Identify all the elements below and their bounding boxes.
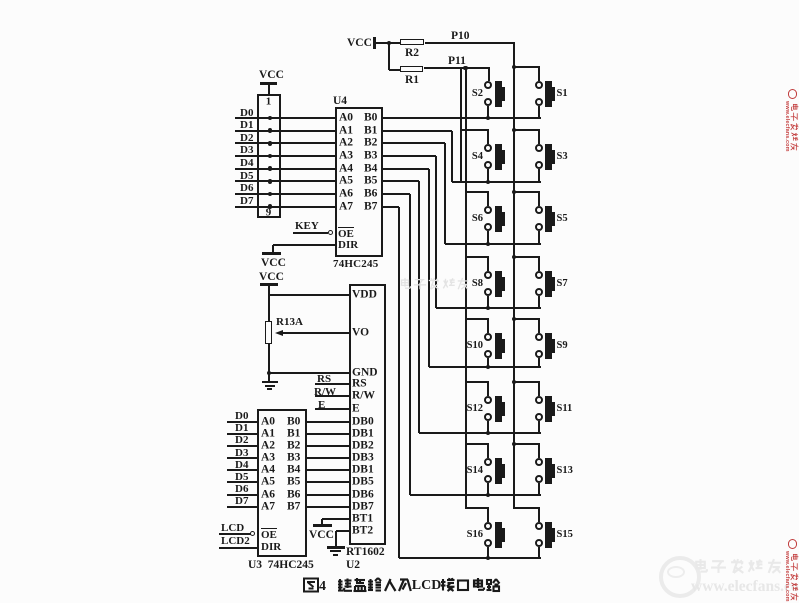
switch S6 (484, 206, 492, 214)
pin A1 U3 label (261, 428, 275, 440)
op U3 74HC245 buffer box (257, 409, 307, 557)
label D0 (top bus) (240, 108, 253, 119)
node D2 on connector (268, 141, 273, 146)
pin B0 label (364, 112, 377, 124)
pin RS U2 label (352, 378, 367, 390)
switch S7 (535, 271, 543, 279)
wire row 4 left-cell top (466, 256, 490, 258)
wire D4 into U3 (227, 469, 257, 471)
node VCC branch (387, 41, 391, 45)
wire S15 bottom lead (538, 547, 540, 558)
pin A5 U3 label (261, 477, 275, 489)
switch S8 (484, 271, 492, 279)
pin DB1 U2 label (352, 465, 374, 477)
pin BT2 U2 label (352, 525, 373, 537)
pin DB6 U2 label (352, 489, 374, 501)
wire row 4 right-cell top (514, 256, 540, 258)
wire P10 column rail (513, 43, 515, 509)
label D3 (top bus) (240, 145, 253, 156)
pin DIR U3 label (261, 542, 281, 553)
wire B4 to key row 5 (383, 168, 429, 170)
pin B6 U3 label (287, 489, 300, 501)
resistor R1 (400, 66, 423, 73)
node S12 on row line (486, 431, 490, 435)
wire D0 into U3 (227, 421, 257, 423)
wire B7 to key row 8 (383, 206, 399, 208)
label D1 (top bus) (240, 120, 253, 131)
node S16 on row line (486, 556, 490, 560)
wire D3 to A3 (235, 155, 335, 157)
pin B5 label (364, 175, 377, 187)
node P10 rail row 5 (512, 317, 517, 322)
wire B7 U3 to DB7 (307, 506, 349, 508)
pin DB1 U2 label (352, 428, 374, 440)
wire row 5 left-cell top (466, 318, 490, 320)
node P10 rail row 3 (512, 190, 517, 195)
pin E U2 label (352, 403, 360, 415)
wire left column rail (465, 68, 467, 509)
wire D5 to A5 (235, 180, 335, 182)
power VCC (LCD supply) (259, 272, 284, 284)
label P11 (448, 56, 466, 68)
pin A3 label (339, 150, 353, 162)
wire B6 to key row 7 (383, 193, 410, 195)
label D3 (bottom bus) (235, 448, 248, 459)
pin DB7 U2 label (352, 501, 374, 513)
pin B7 label (364, 201, 377, 213)
wire S10 bottom lead (487, 358, 489, 367)
label LCD2 + wire to DIR (221, 536, 250, 547)
node D6 on connector (268, 192, 273, 197)
switch S5 (535, 206, 543, 214)
node S10 on row line (486, 365, 490, 369)
pin DB5 U2 label (352, 477, 374, 489)
pin A3 U3 label (261, 452, 275, 464)
wire KEY to OE (293, 232, 328, 234)
label D5 (top bus) (240, 171, 253, 182)
switch S10 (484, 333, 492, 341)
pin A4 U3 label (261, 465, 275, 477)
wire row 6 left-cell top (466, 381, 490, 383)
wire row 1 left-cell top (488, 68, 490, 81)
wire S1 bottom lead (538, 106, 540, 118)
pin A7 label (339, 201, 353, 213)
wire B1 U3 to DB1 (307, 433, 349, 435)
pin GND U2 label (352, 367, 378, 379)
wire S3 bottom lead (538, 169, 540, 182)
node D7 on connector (268, 204, 273, 209)
pin B3 label (364, 150, 377, 162)
pin B5 U3 label (287, 477, 300, 489)
node S6 on row line (486, 242, 490, 246)
wire D2 into U3 (227, 445, 257, 447)
power VCC (DIR pull, inverted bar) (262, 252, 281, 255)
connector J1 keypad header (257, 94, 281, 219)
wire D6 to A6 (235, 193, 335, 195)
wire D5 into U3 (227, 481, 257, 483)
wire DIR to VCC (273, 244, 336, 246)
pin DB3 U2 label (352, 452, 374, 464)
node S8 on row line (486, 306, 490, 310)
node P10 rail row 7 (512, 442, 517, 447)
wire B2 U3 to DB2 (307, 445, 349, 447)
wire R2 to P10 column (425, 42, 515, 44)
wire S4 bottom lead (487, 169, 489, 182)
pin 1 label (266, 96, 272, 107)
label U4 (333, 96, 347, 108)
power VCC (BT1 backlight) (322, 518, 349, 520)
label RT1602 (346, 547, 385, 559)
pin B4 label (364, 163, 377, 175)
wire B5 to key row 6 (383, 180, 419, 182)
label P10 (451, 31, 470, 43)
wire B4 U3 to DB4 (307, 469, 349, 471)
wire GND row (269, 372, 349, 374)
ground (contrast divider) (262, 381, 278, 384)
label D2 (bottom bus) (235, 435, 248, 446)
pin VO U2 label (352, 327, 369, 339)
pin B4 U3 label (287, 465, 300, 477)
pin OE U3 bubble (250, 531, 255, 536)
wire S9 bottom lead (538, 358, 540, 367)
wire row 7 left-cell top (466, 443, 490, 445)
wire D7 to A7 (235, 206, 335, 208)
label D6 (bottom bus) (235, 484, 248, 495)
pin OE U4 (active low) with bubble (338, 227, 354, 240)
wire S12 bottom lead (487, 421, 489, 433)
pin A6 label (339, 188, 353, 200)
node P11 joins rail (463, 66, 468, 71)
power VCC top pull-up supply (347, 38, 372, 50)
power VCC above connector (259, 70, 284, 82)
wire S6 bottom lead (487, 231, 489, 244)
pin A0 label (339, 112, 353, 124)
wire VCC to VDD (269, 294, 349, 296)
label D7 (top bus) (240, 196, 253, 207)
wire row 8 left-cell top (466, 507, 490, 509)
pin A7 U3 label (261, 501, 275, 513)
wire D7 into U3 (227, 506, 257, 508)
resistor R13A (pot) (265, 321, 273, 344)
label U3 74HC245 (248, 560, 314, 572)
node P10 rail row 1 (512, 65, 517, 70)
label D4 (bottom bus) (235, 460, 248, 471)
wire D4 to A4 (235, 168, 335, 170)
label D4 (top bus) (240, 158, 253, 169)
wire B0 to key row 1 (362, 117, 541, 119)
wire B0 U3 to DB0 (307, 421, 349, 423)
label D7 (bottom bus) (235, 496, 248, 507)
pin B1 U3 label (287, 428, 300, 440)
wire D3 into U3 (227, 457, 257, 459)
switch S1 (535, 81, 543, 89)
wire B3 to key row 4 (383, 155, 436, 157)
pin 9 label (266, 207, 272, 218)
wire row 3 left-cell top (466, 191, 490, 193)
wire row 7 right-cell top (514, 443, 540, 445)
pin A6 U3 label (261, 489, 275, 501)
pin B1 label (364, 125, 377, 137)
wire D1 into U3 (227, 433, 257, 435)
node P10 rail row 6 (512, 380, 517, 385)
switch S11 (535, 396, 543, 404)
wire row 5 right-cell top (514, 318, 540, 320)
wire row 3 right-cell top (514, 191, 540, 193)
wire B2 to key row 3 (383, 142, 445, 144)
wire S14 bottom lead (487, 483, 489, 495)
wire R13A branch vertical (268, 295, 270, 374)
wire D1 to A1 (235, 130, 335, 132)
pin BT1 U2 label (352, 513, 373, 525)
node D3 on connector (268, 154, 273, 159)
wire S16 bottom lead (487, 547, 489, 558)
wire S13 bottom lead (538, 483, 540, 495)
pin DIR U4 label (338, 240, 358, 251)
label RS + wire (317, 374, 331, 385)
pin A4 label (339, 163, 353, 175)
wire R1 / P11 row-1 top (424, 67, 490, 69)
wire D6 into U3 (227, 494, 257, 496)
op U4 74HC245 buffer box (335, 107, 383, 257)
label E + wire (318, 400, 325, 411)
wire row 2 left-cell top (461, 129, 489, 131)
pin A2 label (339, 138, 353, 150)
wire B1 to key row 2 (383, 130, 452, 132)
node S2 on row line (486, 116, 490, 120)
pin B0 U3 label (287, 416, 300, 428)
label U2 (346, 560, 360, 572)
op U2 RT1602 LCD box (349, 284, 387, 546)
node D1 on connector (268, 128, 273, 133)
switch S9 (535, 333, 543, 341)
pin A0 U3 label (261, 416, 275, 428)
label D6 (top bus) (240, 183, 253, 194)
pin A2 U3 label (261, 440, 275, 452)
wire row 8 right-cell top (514, 507, 540, 509)
wire S5 bottom lead (538, 231, 540, 244)
pin DB0 U2 label (352, 416, 374, 428)
switch S16 (484, 522, 492, 530)
switch S12 (484, 396, 492, 404)
pin B2 U3 label (287, 440, 300, 452)
wire row 1 right-cell top (514, 66, 540, 68)
label D2 (top bus) (240, 133, 253, 144)
wire P11 column rail (460, 68, 462, 183)
pin R/W U2 label (352, 390, 375, 402)
ground (BT2) (336, 530, 350, 532)
pin B6 label (364, 188, 377, 200)
label D0 (bottom bus) (235, 411, 248, 422)
wire S11 bottom lead (538, 421, 540, 433)
switch S2 (484, 81, 492, 89)
wire row 6 right-cell top (514, 381, 540, 383)
pin VDD U2 label (352, 289, 377, 301)
node D4 on connector (268, 166, 273, 171)
switch S14 (484, 458, 492, 466)
switch S15 (535, 522, 543, 530)
label R/W + wire (314, 387, 336, 398)
wire VCC to resistors (376, 42, 400, 44)
label 74HC245 (U4) (333, 259, 378, 270)
pin DB2 U2 label (352, 440, 374, 452)
pin A1 label (339, 125, 353, 137)
wire S8 bottom lead (487, 296, 489, 308)
pin A5 label (339, 175, 353, 187)
label D5 (bottom bus) (235, 472, 248, 483)
wire B5 U3 to DB5 (307, 481, 349, 483)
node GND junction (267, 371, 271, 375)
label KEY (295, 221, 319, 232)
pin B3 U3 label (287, 452, 300, 464)
wire S2 bottom lead (487, 106, 489, 118)
node S4 on row line (486, 180, 490, 184)
resistor R2 (400, 39, 424, 46)
caption: figure 4 keypad input and LCD interface circuit (303, 577, 319, 593)
label LCD + wire to OE (221, 523, 244, 534)
switch S4 (484, 144, 492, 152)
wire B6 U3 to DB6 (307, 494, 349, 496)
wire D0 to A0 (235, 117, 335, 119)
wire branch to R1 (389, 69, 400, 71)
node S14 on row line (486, 493, 490, 497)
wire row 2 right-cell top (514, 129, 540, 131)
wire B3 U3 to DB3 (307, 457, 349, 459)
switch S13 (535, 458, 543, 466)
node P10 rail row 4 (512, 255, 517, 260)
node D5 on connector (268, 179, 273, 184)
node P10 rail row 2 (512, 128, 517, 133)
wire S7 bottom lead (538, 296, 540, 308)
switch S3 (535, 144, 543, 152)
node D0 on connector (268, 116, 273, 121)
wire D2 to A2 (235, 142, 335, 144)
wire VO wiper with arrow (282, 332, 349, 334)
pin B7 U3 label (287, 501, 300, 513)
label D1 (bottom bus) (235, 423, 248, 434)
wire branch down to R1 (388, 43, 390, 70)
pin B2 label (364, 138, 377, 150)
